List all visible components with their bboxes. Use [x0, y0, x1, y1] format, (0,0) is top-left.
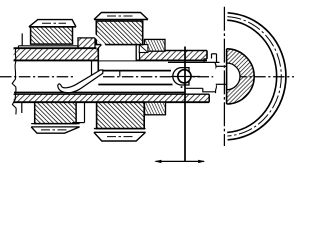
gland hatched band (right top): [140, 51, 208, 61]
centerline through circle: [171, 76, 200, 78]
small spacer edges bottom: [22, 102, 85, 122]
collar top-left chamfer: [97, 45, 101, 49]
nut D (bottom large): [94, 102, 146, 141]
capsule slot: [173, 68, 189, 85]
rod end into hub: [212, 54, 227, 85]
hub half-annulus (hatched): [213, 49, 254, 104]
freehand break line left: [12, 48, 16, 115]
nut A (top small): [29, 20, 76, 44]
vertical centerline of wheel: [223, 7, 225, 146]
nut C (bottom small): [31, 102, 79, 133]
washer under nut A: [18, 33, 78, 48]
dimension arrow: [154, 160, 205, 163]
pin circle: [178, 70, 191, 83]
barrel bottom wall (hatched band): [14, 94, 210, 102]
lever (bent leaf): [58, 70, 103, 93]
rod lines: [14, 60, 220, 92]
section line vertical: [184, 47, 186, 162]
steep-hatched block bottom: [145, 102, 166, 115]
small chamfer box: [139, 45, 148, 53]
chamfer highlight on nut B corner: [94, 34, 105, 46]
barrel top wall (hatched band): [14, 38, 207, 61]
rim arcs: [227, 13, 286, 140]
main horizontal centerline: [0, 76, 75, 78]
small dot: [181, 86, 183, 88]
nut B (top large): [94, 13, 148, 45]
collar (white) under nut B: [98, 45, 136, 73]
right end step + freehand break of rod: [203, 59, 217, 93]
steep-hatched block top: [145, 39, 166, 51]
